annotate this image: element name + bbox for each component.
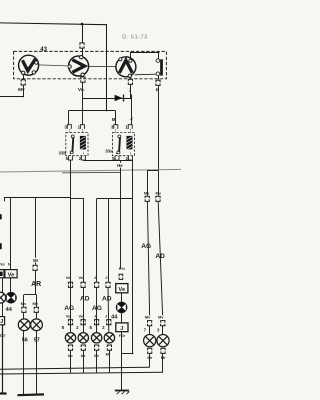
wire AR split [24,294,36,296]
wire top supply rail [0,23,107,25]
wire bus down long right [122,160,133,353]
lamp 56 [18,319,30,331]
relay K1 box [66,133,88,156]
stub K1 pin3 [69,129,71,132]
svg-text:33b: 33b [59,150,67,155]
connector lamp3r top [161,321,165,326]
svg-text:43: 43 [40,47,47,53]
svg-text:F.Gr: F.Gr [119,267,126,271]
label Mv right AG [144,190,150,195]
terminal U2 top [80,56,83,59]
svg-text:J: J [105,275,107,280]
label AG wire A [64,305,74,312]
boxed label far-left [0,270,4,278]
label Ve motor U2 [77,86,87,93]
label Mv motor U1 [17,86,26,93]
connector lamp3 out [95,345,99,350]
ground lamps 56-57 [17,393,44,396]
motor U3 [116,57,136,77]
terminal U2 bottom [81,73,84,76]
wire conn to lamp57 [36,313,38,319]
svg-text:Mv: Mv [145,314,151,319]
wire R split [147,170,158,172]
svg-text:Ve.: Ve. [78,87,85,93]
diode D1 [115,95,124,102]
svg-text:J: J [105,314,107,319]
connector lamp 57 [34,307,38,312]
boxed label J right repeater [116,323,128,332]
label Ve far-left [0,262,5,267]
svg-text:Mv: Mv [158,314,164,319]
relay K1 pin 5 [66,156,73,161]
terminal U1 bottom-right [32,71,35,74]
svg-text:56: 56 [22,337,28,343]
terminal U1 upper-right [35,61,38,64]
wire branch lamps 3-4 [97,198,133,200]
connector wire D row1 [106,282,110,287]
wire D down [108,199,110,282]
wire switch R down [158,76,160,80]
label J motor U3 [128,87,133,94]
label AD right [155,253,165,260]
stub K2 pin2 [130,153,132,156]
label AG wire C [92,305,102,312]
stub K2 pin5 [116,153,118,156]
label AG right [141,243,151,250]
relay K1 pin 1 [78,125,85,130]
connector AR wire [33,265,37,270]
svg-text:8: 8 [89,325,92,330]
wire right repeater to ground [121,332,123,391]
wire far-left b [2,303,4,317]
svg-text:Mv: Mv [155,190,161,195]
connector J motor U3 [128,79,132,84]
svg-text:AD: AD [80,295,90,302]
svg-text:Mr: Mr [33,258,38,263]
label He [116,163,124,168]
lamp 7 right [144,335,156,347]
label AR [31,281,41,288]
label 56 [22,337,28,343]
svg-text:J: J [130,116,133,121]
connector wire C row2 [95,320,99,325]
wire Ve box to repeater lamp [10,278,12,293]
wire lamp3 to bus [96,350,98,373]
wire diode line [83,98,131,100]
switch R contact bar [160,59,163,75]
wire B mid [83,288,85,333]
wire conn to lamp56 [23,313,25,319]
connector lamp7 out [148,348,152,353]
link U2 to U3 [89,66,117,68]
wire distribution bus [68,110,115,112]
boxed label Ve right repeater [116,284,128,294]
label Mr lamp7 [147,355,152,360]
label Ve wire B r2 [79,314,84,319]
stub K1 pin2 [83,153,85,156]
connector wire B row2 [81,320,85,325]
connector wire A row1 [68,282,72,287]
terminal U3 top-left [119,58,122,61]
label Ve wire B [79,275,84,280]
label F.Gr top [119,267,126,271]
wire He feed segment [62,171,121,174]
label 33b [59,150,67,155]
label Ve wire A r2 [66,314,71,319]
label 44 right [111,315,118,321]
connector wire A row2 [68,320,72,325]
connector right repeater [119,274,123,279]
wire AD long [158,202,162,316]
label 2 lamp2 [76,325,79,330]
wire AG drop right [147,170,149,195]
svg-text:M: M [112,117,116,122]
svg-text:AR: AR [31,281,41,288]
motor U1 [19,55,39,75]
svg-text:AD: AD [155,253,165,260]
label M at relay K2 pin3 [112,117,116,122]
stub K1 pin1 [82,129,84,132]
relay K2 coil [127,136,133,150]
relay K2 contact [117,135,121,154]
lamp 3 [91,333,101,343]
relay K1 coil [80,136,86,150]
wire AD drop right [158,170,160,195]
connector lamp7 top [148,321,152,326]
svg-text:J: J [94,275,96,280]
wire lamp56 to ground [23,331,25,395]
svg-text:Ve: Ve [0,262,5,267]
boxed label J far-left [0,317,5,326]
wire Ve down to relay K1 [82,82,84,124]
label Mr lamp4 [106,352,111,357]
wire corner drop right [106,24,108,111]
relay K2 pin 2 [125,156,132,161]
connector Ve motor U2 [81,77,85,82]
wire lamp7 to bus [0,354,150,370]
label Mv lamp56 [21,301,27,306]
wire D mid [107,288,110,333]
label D. 51-73 [122,35,147,41]
edge mark upper [0,214,2,219]
connector lamp4 out [107,345,111,350]
lamp 57 [31,319,43,331]
connector Mv motor U1 [21,80,25,85]
wire diode to relay K2 pin1 [131,94,133,124]
wire left branch line [5,198,71,201]
connector R [156,80,160,85]
relay K2 pin 1 [125,125,132,130]
svg-text:Mr: Mr [161,355,166,360]
repeater lamp 44 left [6,292,17,303]
svg-text:Ve: Ve [118,287,126,293]
wire to lamp 57 [36,295,38,307]
svg-text:D. 51-73: D. 51-73 [122,35,147,41]
svg-text:J: J [120,326,123,332]
wire Mv exit left [0,85,24,97]
stub K1 pin5 [70,153,72,156]
connector lamp 56 [22,307,26,312]
wire A relay K1 pin5 down [70,160,72,332]
wire R down long [158,86,160,171]
label J wire D r2 [105,314,107,319]
wire to lamp3r [162,326,164,335]
label Mv lamp7 [145,314,151,319]
wire lamp3r to bus [0,354,163,374]
lamp 4 [104,333,114,343]
relay K1 pin 2 [79,156,86,161]
lamp 3 right [157,335,169,347]
wire to lamp7 [149,326,151,335]
dashed enclosure unit 43 [14,51,167,78]
ground far-left [0,392,7,394]
label J wire C [94,275,96,280]
wire AG long [147,202,149,316]
relay K2 box [112,133,134,156]
link U1 to U2 [39,65,68,66]
wire U3 to switch top [131,52,159,59]
label J wire D [105,275,107,280]
relay K1 contact [70,135,74,154]
label Mr lamp3 [94,353,99,358]
terminal U1 bottom-left [22,71,25,74]
wire relay outputs bus [83,160,133,162]
svg-text:7: 7 [144,328,147,333]
stub K2 pin3 [115,129,117,132]
label Gr far-left [0,333,5,338]
node junction at motor U2 feed [81,23,83,25]
svg-text:Ve: Ve [8,272,16,278]
svg-text:AG: AG [64,305,74,312]
wire left repeater drop [10,198,12,270]
wire lamp57 to ground [36,331,38,395]
wire to lamp 56 [23,295,25,307]
label 33a [105,149,113,154]
edge mark lower [0,243,2,249]
label 8 lamp3 [89,325,92,330]
svg-text:Mv: Mv [18,87,25,93]
label F.Gr bottom [119,334,126,338]
connector wire B row1 [81,282,85,287]
wire AR continue [35,271,37,295]
label N [8,262,11,267]
wire far-left a [2,278,4,293]
svg-text:44: 44 [111,315,118,321]
svg-text:He: He [117,163,123,168]
svg-text:44: 44 [6,307,13,313]
lamp 1 [65,333,75,343]
wire drop to motor U2 [82,24,84,43]
connector lamp1 out [68,345,72,350]
connector lamp3r out [161,348,165,353]
connector wire D row2 [107,320,111,325]
svg-text:8: 8 [62,325,65,330]
label Mv lamp57 [32,301,38,306]
boxed label Ve left repeater [5,270,17,279]
wire relay K2 pin5 down [120,160,122,269]
wire to relay K2 pin3 [115,111,117,125]
connector lamp2 out [81,345,85,350]
svg-text:Mv: Mv [32,301,38,306]
label Mv lamp3r [158,314,164,319]
wire B branch [71,198,84,281]
label 8 lamp1 [62,325,65,330]
wire U2 to connector Ve [82,75,84,77]
label 57 [34,337,40,343]
wire J down to diode node [130,85,132,98]
label Mr on AR wire [32,258,40,263]
svg-text:AG: AG [92,305,102,312]
wire connector to motor U2 top [82,48,84,56]
label AD wire D [102,295,112,302]
label J wire C r2 [94,314,96,319]
connector wire C row1 [95,282,99,287]
label AD wire B [80,295,90,302]
svg-text:AD: AD [102,295,112,302]
wire far-left to ground [2,325,4,393]
svg-text:AG: AG [141,243,151,250]
label R [155,87,160,94]
wire right repeater b [121,313,123,323]
label 44 left [6,307,13,313]
svg-text:33a: 33a [105,149,113,154]
wire right repeater a [121,293,123,302]
terminal U3 bottom [128,74,131,77]
switch R top terminal [156,59,160,63]
svg-text:N: N [8,262,11,267]
label 2 lamp4 [102,325,105,330]
wire to relay K1 pin3 [68,111,70,125]
wire lamp1 to bus [70,350,72,373]
svg-text:J: J [94,314,96,319]
wire U3 to switch bottom [135,73,156,76]
label Mr lamp1 [68,353,73,358]
wire U1 to connector Mv [23,75,25,80]
wire lamp4 to bus [109,350,111,373]
wire U3 to connector J [130,77,132,78]
wire C down [96,199,98,282]
relay K2 pin 3 [111,125,118,130]
connector right AD [156,196,160,201]
label 7 [144,328,147,333]
svg-text:J: J [0,319,3,325]
label J at relay K2 pin1 [130,116,133,121]
stub K2 pin1 [130,129,132,132]
svg-text:Mv: Mv [144,190,150,195]
wire thin horizontal rule [0,169,181,172]
relay K1 pin 3 [64,125,71,130]
connector in motor U2 feed [80,43,84,48]
svg-text:Mv: Mv [21,301,27,306]
chassis ground right [115,391,130,395]
terminal U2 left [68,65,71,68]
terminal U3 top-right [129,59,132,62]
connector right AG [145,196,149,201]
label 3 right [157,328,160,333]
label 43 [40,47,47,53]
wire C mid [96,288,98,333]
wire lamp2 to bus [83,350,85,373]
lamp 2 [78,333,88,343]
svg-text:2: 2 [76,325,79,330]
svg-text:R: R [156,88,160,94]
wire A mid [70,288,72,333]
wire AR drop [35,198,37,265]
repeater lamp 44 right [116,302,127,313]
relay K2 pin 5 [112,156,119,161]
svg-text:Mr: Mr [147,355,152,360]
svg-text:Mr: Mr [106,352,111,357]
svg-text:2: 2 [102,325,105,330]
label Mr lamp2 [81,353,86,358]
motor U2 [69,56,89,76]
label Mv right AD [155,190,161,195]
lamp far-left clipped [0,292,6,303]
svg-text:F.Gr: F.Gr [119,334,126,338]
label Ve wire A [66,275,71,280]
label Mr lamp3r [161,355,166,360]
svg-text:3: 3 [157,328,160,333]
switch R bottom terminal [156,72,160,76]
